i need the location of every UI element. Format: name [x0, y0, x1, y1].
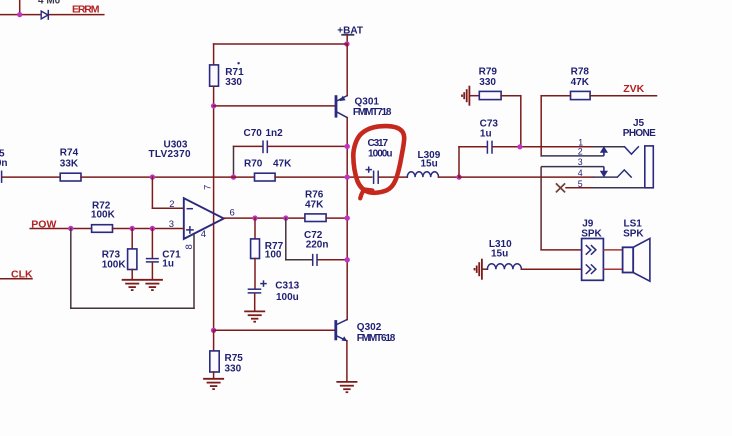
svg-text:100K: 100K: [102, 259, 127, 270]
svg-text:330: 330: [225, 77, 242, 88]
svg-text:2: 2: [578, 146, 583, 156]
no-connect X on pin5: [556, 183, 565, 192]
wire to Q302 base: [214, 329, 335, 331]
red annotation circle around C317: [353, 126, 404, 198]
wire R79 to C73 node: [501, 96, 521, 147]
node junction C70/main row: [231, 174, 236, 179]
inductor L309 15u: [407, 150, 440, 177]
wire J5 pin5: [566, 187, 645, 189]
svg-text:220n: 220n: [306, 240, 329, 251]
resistor R76 47K: [305, 190, 326, 222]
wire R71 bottom rail to op-amp pin7 and down to pin4 node: [213, 86, 215, 330]
svg-text:TLV2370: TLV2370: [149, 149, 191, 160]
node junction output: [456, 174, 461, 179]
svg-text:4 M0: 4 M0: [38, 0, 61, 6]
resistor R78 47K: [571, 66, 591, 99]
wire R78 right ZVK: [590, 95, 656, 97]
node junction C73/R79: [517, 144, 522, 149]
svg-text:ZVK: ZVK: [623, 83, 644, 95]
ground under Q302: [336, 382, 357, 392]
node junction C71 tap: [150, 226, 155, 231]
ground left of L310 rotated: [475, 259, 488, 280]
power +BAT: [337, 25, 363, 44]
svg-text:47K: 47K: [305, 200, 324, 211]
capacitor C317 1000u: [366, 138, 407, 183]
wire Q302 emitter down: [346, 341, 348, 382]
capacitor C71 1u: [147, 229, 181, 280]
node junction rail/main row: [345, 174, 350, 179]
svg-text:1u: 1u: [162, 259, 174, 270]
wire R78 left to J5 pin2: [541, 96, 570, 156]
node junction base drive: [211, 103, 216, 108]
node junction POW/loop: [68, 226, 73, 231]
wire J5 pin3 down to J9: [540, 167, 542, 250]
wire R72 to op-amp pin 3: [113, 228, 184, 230]
svg-text:7: 7: [203, 185, 214, 190]
wire to R71 top: [213, 44, 215, 65]
transistor Q301 FMMT718: [336, 95, 392, 118]
transistor Q302 FMMT618: [336, 320, 396, 344]
wire pin 8 stub: [193, 235, 195, 309]
wire ERRM horizontal: [0, 14, 41, 16]
inductor L310 15u: [487, 239, 521, 269]
capacitor C70 1n2: [234, 128, 348, 152]
wire to Q301 base: [214, 105, 335, 107]
svg-text:4: 4: [201, 229, 206, 240]
svg-text:Q302: Q302: [357, 322, 382, 333]
svg-text:2: 2: [169, 199, 174, 210]
resistor R72 100K: [91, 200, 116, 232]
resistor R79 330: [479, 66, 501, 99]
wire output row to J5 pin4: [459, 176, 593, 178]
jack body J5: [645, 146, 654, 188]
svg-text:100: 100: [265, 249, 282, 260]
svg-text:47K: 47K: [273, 158, 292, 169]
svg-text:330: 330: [225, 363, 242, 374]
svg-text:1n2: 1n2: [266, 128, 284, 139]
svg-text:Q301: Q301: [355, 97, 380, 108]
wire feedback to pin 2: [152, 177, 183, 208]
jack tip contact: [625, 147, 639, 154]
node junction feedback: [150, 174, 155, 179]
capacitor C73 1u: [459, 118, 593, 153]
resistor R74 33K: [60, 148, 81, 181]
node junction pin4/Q302 base row: [211, 328, 216, 333]
svg-text:FMMT718: FMMT718: [353, 107, 392, 118]
resistor R70 47K: [244, 158, 292, 181]
svg-text:R74: R74: [60, 148, 79, 159]
resistor R71: [210, 62, 244, 88]
svg-text:R79: R79: [479, 66, 498, 77]
svg-text:R78: R78: [571, 66, 590, 77]
svg-text:6: 6: [230, 208, 235, 219]
wire L309 to output node: [439, 176, 460, 178]
svg-text:100u: 100u: [276, 292, 299, 303]
svg-text:100K: 100K: [91, 209, 116, 220]
wire feedback loop POW to pin 8: [71, 229, 194, 309]
svg-text:8: 8: [184, 244, 195, 249]
node junction C72/rail: [345, 257, 350, 262]
svg-text:R75: R75: [225, 353, 244, 364]
node junction C70/rail: [345, 144, 350, 149]
capacitor left edge fragment: [0, 148, 8, 182]
svg-text:3: 3: [578, 157, 583, 167]
capacitor C72 220n: [286, 218, 347, 265]
ground under R75: [203, 379, 224, 389]
op-amp U303 TLV2370 labels: [149, 139, 191, 159]
svg-text:33K: 33K: [60, 158, 79, 169]
ground under C71: [142, 280, 163, 290]
wire output row: [224, 217, 305, 219]
wire R70 to rail: [275, 176, 372, 178]
node junction R73 tap: [130, 226, 135, 231]
ground under R73: [122, 280, 143, 290]
svg-text:1u: 1u: [480, 129, 492, 140]
jack ring contact: [617, 170, 631, 177]
wire J5 pin3: [541, 166, 604, 168]
wire L310 to J9 pin2: [521, 268, 581, 270]
svg-text:15u: 15u: [421, 158, 438, 169]
wire CLK stub: [0, 278, 32, 280]
wire top rail: [214, 43, 347, 45]
svg-text:C70: C70: [244, 128, 263, 139]
resistor R75 330: [210, 330, 243, 378]
resistor R77 100: [251, 218, 284, 260]
resistor R73 100K: [102, 229, 137, 280]
wire R76 to rail: [326, 217, 347, 219]
capacitor C313 100u: [248, 259, 299, 312]
speaker LS1 SPK: [623, 219, 650, 282]
wire main row R74 to R70: [81, 176, 255, 178]
svg-text:ERRM: ERRM: [72, 4, 100, 16]
svg-text:4: 4: [578, 168, 583, 178]
svg-text:FMMT618: FMMT618: [357, 333, 396, 344]
diode D (unlabeled): [41, 11, 48, 20]
svg-text:PHONE: PHONE: [623, 128, 656, 139]
wire Q301 emitter to +BAT rail: [346, 44, 348, 96]
jack switch arrow down: [600, 167, 608, 178]
jack switch arrow up: [600, 146, 608, 156]
node junction ERRM: [17, 12, 22, 17]
svg-text:SPK: SPK: [623, 229, 644, 240]
svg-text:330: 330: [479, 77, 496, 88]
svg-text:15u: 15u: [491, 248, 508, 259]
wire Q301 collector rail down to Q302 collector: [346, 118, 348, 320]
connector J5 PHONE labels: [623, 118, 656, 139]
wire J5 pin1: [593, 146, 625, 148]
op-amp U303 triangle: [184, 198, 224, 239]
wire C73 left down to output node: [458, 147, 460, 177]
ground left of R79 rotated: [462, 86, 479, 106]
connector J9 SPK: [581, 219, 603, 281]
ground under C313: [244, 311, 265, 321]
wire ERRM vertical stub: [19, 0, 21, 15]
wire J5 pin2: [541, 155, 604, 157]
node junction +BAT rail: [344, 41, 349, 46]
svg-text:R70: R70: [244, 158, 263, 169]
wire J9 to LS1 top: [603, 249, 622, 251]
wire main row left: [2, 176, 60, 178]
svg-text:1000u: 1000u: [368, 148, 393, 159]
node junction C72 tap: [283, 215, 288, 220]
node junction R77 tap: [252, 215, 257, 220]
wire POW row: [30, 228, 91, 230]
wire C70 corner down to main row: [233, 146, 235, 177]
svg-text:47K: 47K: [571, 77, 590, 88]
wire to J9 pin1: [541, 249, 582, 251]
wire J9 to LS1 bottom: [603, 268, 622, 270]
svg-text:0n: 0n: [0, 158, 8, 169]
node junction R76/rail: [345, 215, 350, 220]
svg-text:C313: C313: [275, 281, 299, 292]
